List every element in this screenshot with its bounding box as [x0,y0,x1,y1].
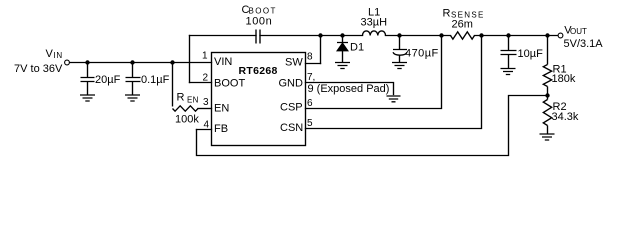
ground for 10uF [501,69,516,75]
resistor REN 100k [173,106,199,111]
wire SW stub pin 8 [306,63,321,65]
svg-text:6: 6 [307,98,313,109]
svg-text:100k: 100k [175,114,199,126]
wire FB feedback loop [197,96,548,156]
wire CSN sense line pin 5 [306,37,482,129]
junction dot D1 [340,33,344,37]
svg-text:R: R [177,92,185,104]
diode D1 [337,37,348,63]
ground for R2 [540,134,555,140]
capacitor C 0.1uF [126,63,141,96]
wire SW vertical [320,36,322,64]
svg-text:5V/3.1A: 5V/3.1A [564,38,604,50]
svg-text:180k: 180k [552,73,576,85]
ground for exposed pad [387,96,401,102]
junction dot R1 top [545,33,549,37]
terminal VIN circle [65,60,70,65]
junction dot VIN/20uF [85,60,89,64]
junction dot RSENSE right / CSN [479,33,483,37]
svg-text:7,: 7, [307,72,315,83]
inductor L1 33uH [363,31,386,36]
wire EN stub pin 3 [198,108,212,110]
svg-text:10µF: 10µF [518,48,544,60]
svg-text:3: 3 [203,97,209,108]
junction dot VIN/0.1uF [130,60,134,64]
svg-text:IN: IN [53,51,63,60]
svg-text:4: 4 [204,120,210,131]
wire VIN rail [70,62,212,64]
svg-text:2: 2 [203,73,209,84]
svg-text:34.3k: 34.3k [552,111,579,123]
resistor R1 180k [543,37,551,100]
ground for 20uF [80,95,95,101]
svg-text:5: 5 [307,118,313,129]
svg-text:26m: 26m [452,18,473,30]
ground for 0.1uF [125,95,140,101]
wire BOOT stub pin 2 [190,82,212,84]
wire top boot/switch rail [190,35,558,37]
svg-text:CSN: CSN [280,122,303,134]
wire exposed pad ground line pins 7,9 [306,83,394,95]
svg-text:CSP: CSP [280,102,303,114]
svg-text:RT6268: RT6268 [239,65,278,77]
wire FB stub pin 4 [197,129,212,131]
svg-text:BOOT: BOOT [249,7,277,16]
ground for 470uF [392,63,407,69]
junction dot 470uF [397,33,401,37]
svg-text:7V to 36V: 7V to 36V [14,63,63,75]
svg-text:SW: SW [285,57,303,69]
svg-text:1: 1 [202,51,208,62]
svg-text:20µF: 20µF [95,74,121,86]
svg-text:EN: EN [214,103,229,115]
junction dot VIN/REN [170,60,174,64]
capacitor 470uF electrolytic [393,37,407,63]
junction dot RSENSE left / CSP [439,33,443,37]
wire BOOT vertical [189,36,191,83]
capacitor CBOOT 100n [256,30,260,44]
svg-text:OUT: OUT [570,27,587,36]
capacitor 10uF [501,37,517,69]
svg-text:VIN: VIN [214,56,232,68]
wire REN vertical from VIN rail [172,63,174,106]
svg-text:470µF: 470µF [405,48,439,60]
svg-text:33µH: 33µH [361,17,388,29]
capacitor C 20uF [81,63,95,96]
svg-text:8: 8 [307,52,313,63]
resistor RSENSE 26m [451,32,475,39]
svg-text:D1: D1 [350,42,364,54]
svg-text:9 (Exposed Pad): 9 (Exposed Pad) [308,83,390,95]
svg-text:0.1µF: 0.1µF [141,74,170,86]
svg-text:BOOT: BOOT [214,78,245,90]
svg-text:GND: GND [279,78,304,90]
junction dot FB divider [545,93,549,97]
junction dot SW node [318,33,322,37]
terminal VOUT circle [558,33,563,38]
svg-text:100n: 100n [246,16,273,28]
resistor R2 34.3k [543,100,551,135]
junction dot 10uF [506,33,510,37]
svg-text:FB: FB [214,123,228,135]
wire CSP sense line pin 6 [306,37,442,109]
svg-text:EN: EN [187,96,199,105]
op-amp U1 RT6268 IC body [212,53,306,146]
svg-text:R: R [443,8,451,20]
ground for D1 [335,63,350,69]
